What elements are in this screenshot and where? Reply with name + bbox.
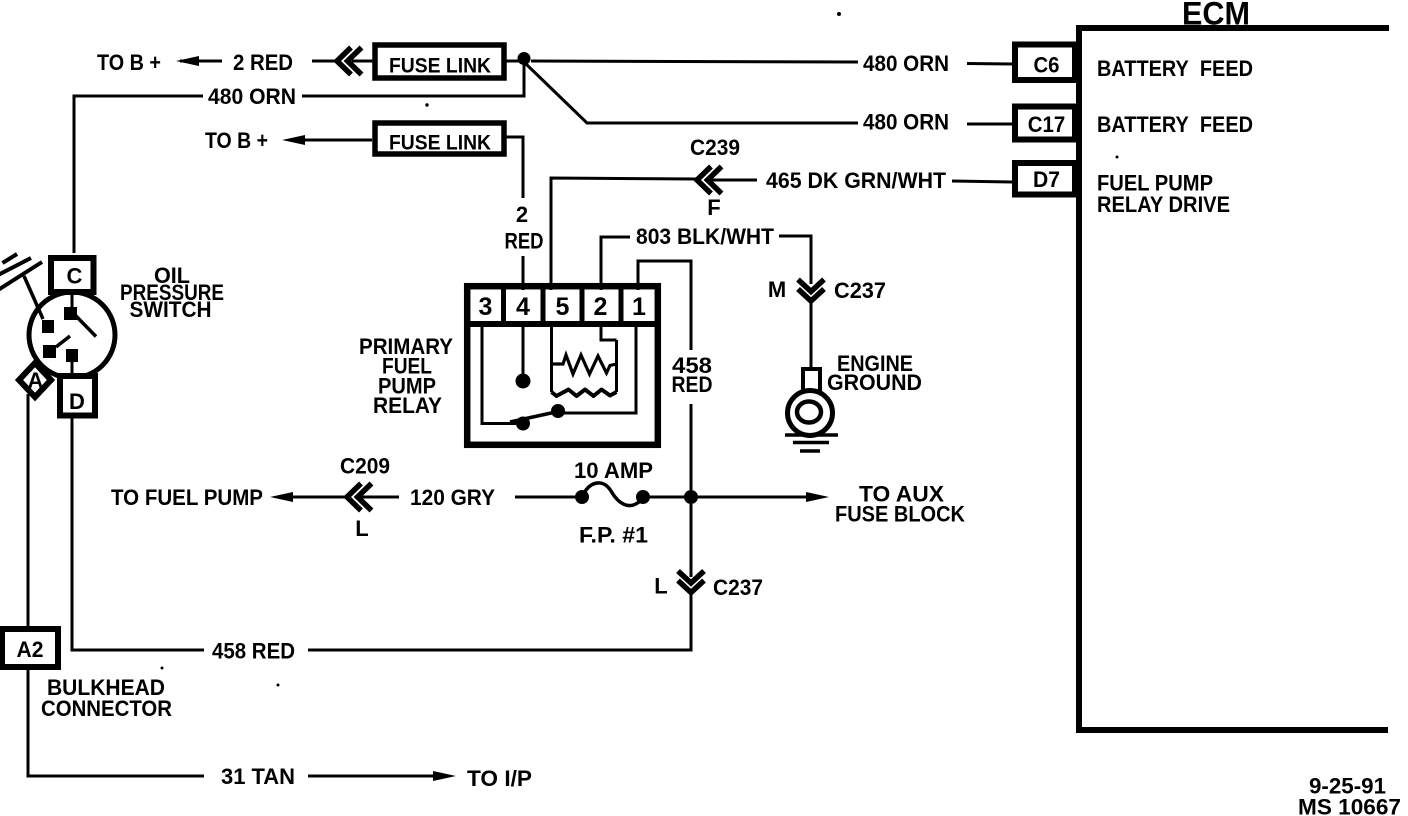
svg-text:RED: RED xyxy=(672,372,713,397)
svg-text:FUSE LINK: FUSE LINK xyxy=(389,55,491,78)
svg-text:BATTERY FEED: BATTERY FEED xyxy=(1097,56,1253,81)
svg-text:4: 4 xyxy=(516,293,530,321)
svg-text:465 DK GRN/WHT: 465 DK GRN/WHT xyxy=(766,168,947,193)
svg-text:C237: C237 xyxy=(834,278,886,303)
svg-text:C6: C6 xyxy=(1034,53,1060,78)
svg-text:TO I/P: TO I/P xyxy=(467,766,532,791)
svg-text:D: D xyxy=(69,389,85,414)
svg-text:803 BLK/WHT: 803 BLK/WHT xyxy=(636,224,775,249)
svg-text:3: 3 xyxy=(479,293,493,321)
svg-text:D7: D7 xyxy=(1033,167,1060,192)
svg-text:MS 10667: MS 10667 xyxy=(1298,795,1401,816)
svg-text:L: L xyxy=(654,574,667,599)
svg-text:SWITCH: SWITCH xyxy=(130,297,212,322)
svg-text:F: F xyxy=(707,195,720,220)
svg-text:A: A xyxy=(28,368,44,393)
svg-text:458 RED: 458 RED xyxy=(212,639,295,664)
svg-text:TO B +: TO B + xyxy=(205,128,268,153)
svg-text:F.P. #1: F.P. #1 xyxy=(579,523,648,548)
svg-text:480 ORN: 480 ORN xyxy=(863,51,949,76)
svg-text:FUSE LINK: FUSE LINK xyxy=(389,132,491,155)
svg-text:1: 1 xyxy=(632,293,646,321)
svg-text:M: M xyxy=(768,277,786,302)
svg-text:ECM: ECM xyxy=(1182,0,1250,32)
svg-text:2: 2 xyxy=(516,202,528,227)
svg-text:TO FUEL PUMP: TO FUEL PUMP xyxy=(111,485,263,510)
svg-text:RED: RED xyxy=(505,229,544,254)
svg-text:CONNECTOR: CONNECTOR xyxy=(41,696,172,721)
svg-text:TO B +: TO B + xyxy=(97,50,161,75)
svg-text:C237: C237 xyxy=(713,575,763,600)
svg-text:10 AMP: 10 AMP xyxy=(574,458,653,483)
svg-text:GROUND: GROUND xyxy=(827,370,922,395)
svg-text:120 GRY: 120 GRY xyxy=(410,485,495,510)
svg-text:L: L xyxy=(355,516,368,541)
svg-text:31 TAN: 31 TAN xyxy=(221,764,295,789)
svg-text:5: 5 xyxy=(556,293,570,321)
svg-text:C239: C239 xyxy=(690,135,740,160)
svg-text:480 ORN: 480 ORN xyxy=(208,84,296,109)
svg-text:BATTERY FEED: BATTERY FEED xyxy=(1097,112,1253,137)
svg-text:RELAY: RELAY xyxy=(373,393,442,418)
svg-text:2 RED: 2 RED xyxy=(233,50,293,75)
svg-text:RELAY DRIVE: RELAY DRIVE xyxy=(1097,192,1230,217)
svg-text:C209: C209 xyxy=(340,454,390,479)
svg-text:C: C xyxy=(67,264,83,289)
svg-text:C17: C17 xyxy=(1028,112,1066,137)
svg-text:2: 2 xyxy=(594,293,608,321)
svg-text:FUSE BLOCK: FUSE BLOCK xyxy=(835,502,965,527)
svg-text:A2: A2 xyxy=(17,637,44,662)
svg-text:480 ORN: 480 ORN xyxy=(863,110,949,135)
